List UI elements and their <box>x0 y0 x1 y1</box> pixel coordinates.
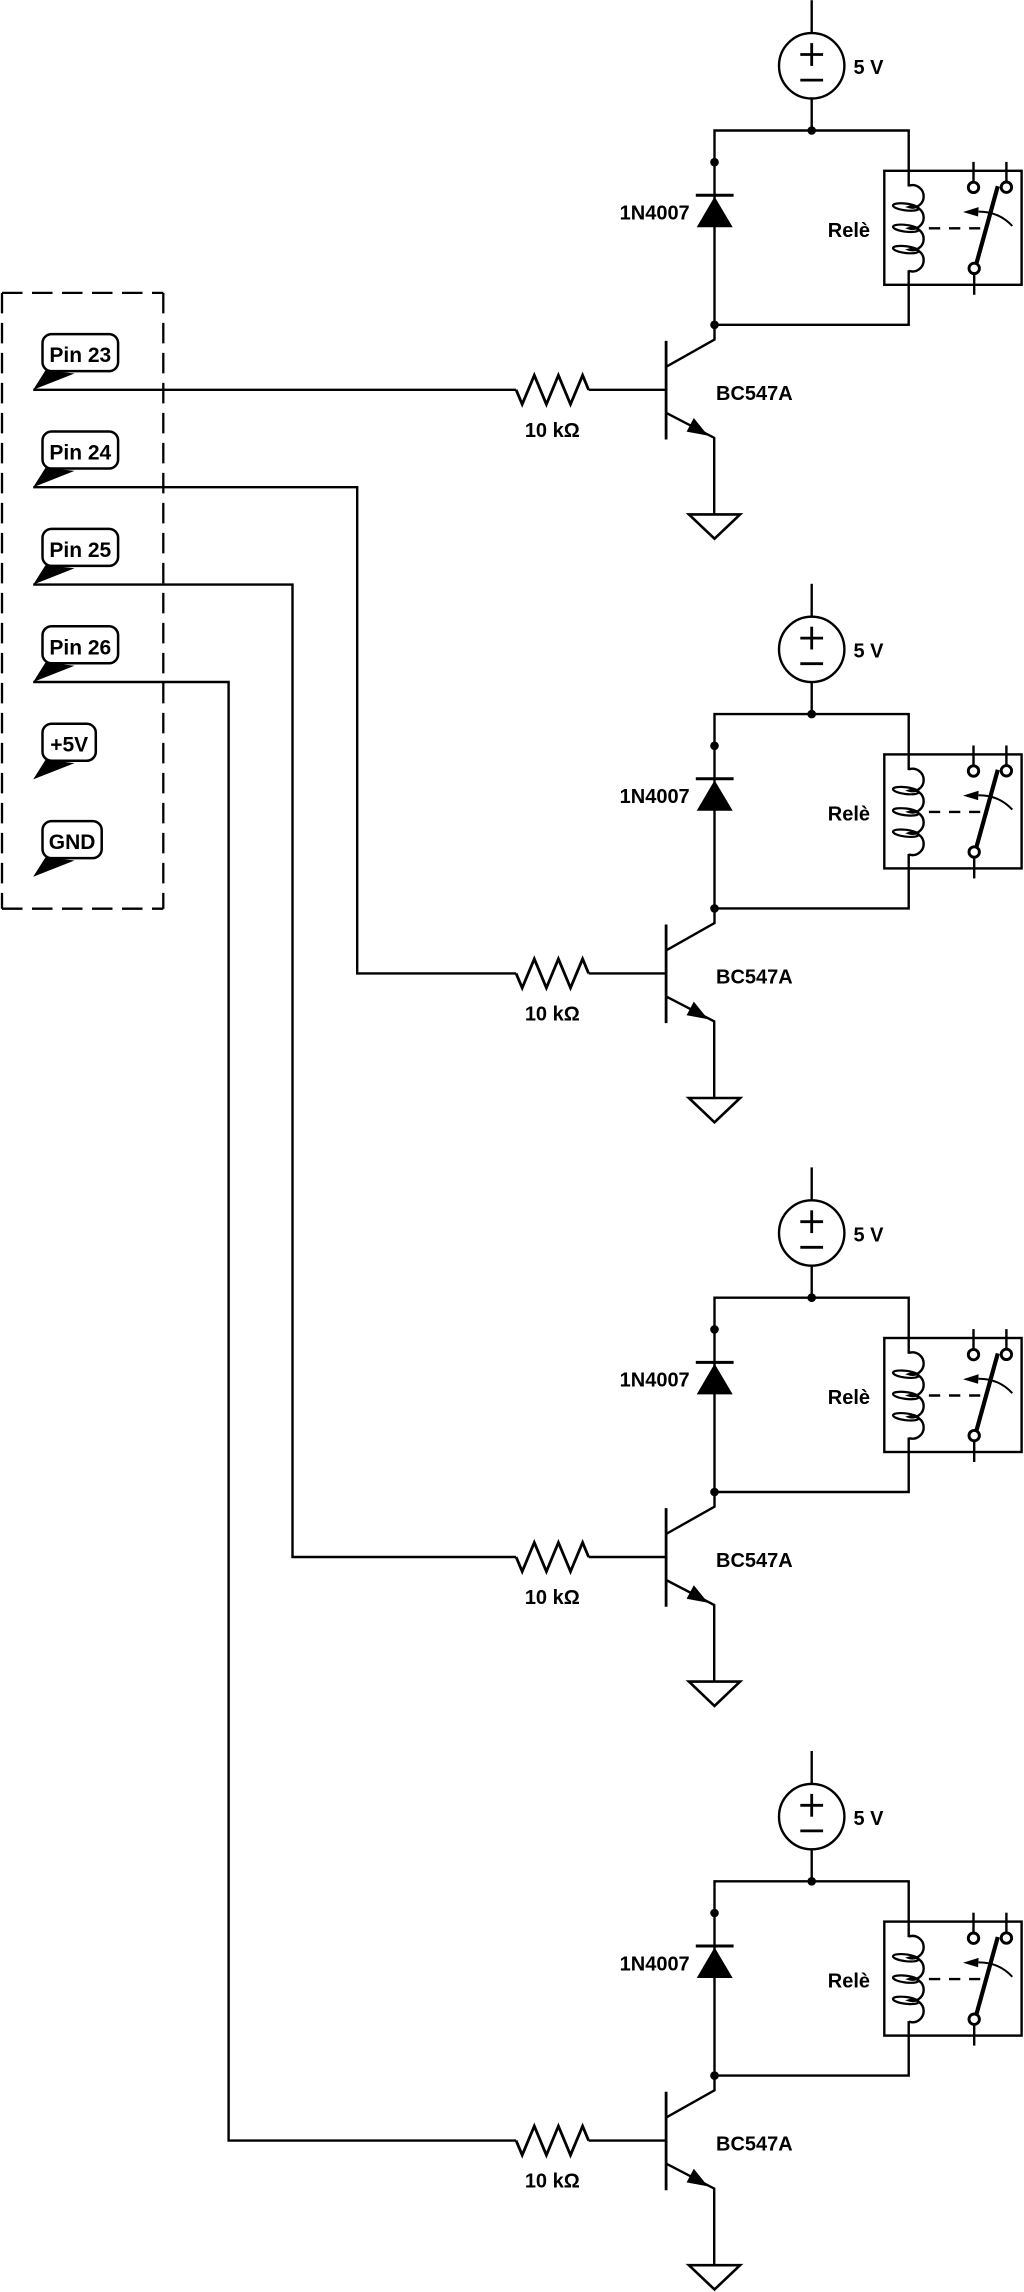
wire top stub of V4 <box>811 1751 813 1784</box>
resistor R4 10 kΩ zigzag <box>516 2126 589 2155</box>
wire R4 to base of Q4 <box>589 2139 667 2141</box>
bottom rail wire block 2 (with coil return) <box>715 854 909 909</box>
node label GND (callout flag) <box>33 821 102 877</box>
svg-text:1N4007: 1N4007 <box>620 203 690 225</box>
ground symbol block 2 <box>689 1098 740 1122</box>
relay K1 contact terminal stubs <box>974 162 1007 295</box>
relay K3 coupling dashed line <box>929 1394 980 1396</box>
relay K4 coil <box>893 1936 924 2022</box>
top rail wire block 4 (with diode branch and coil feed) <box>715 1881 909 2075</box>
bottom rail wire block 3 (with coil return) <box>715 1438 909 1493</box>
relay K4 actuation arrow <box>963 1958 1012 1977</box>
junction node dot at collector of Q1 <box>710 321 719 330</box>
svg-text:BC547A: BC547A <box>716 383 793 405</box>
voltage source V3 5 V <box>779 1200 844 1265</box>
resistor R1 10 kΩ zigzag <box>516 375 589 404</box>
wire Pin 25 to R3 <box>33 585 516 1557</box>
junction node dot at V1 / top rail <box>807 126 816 135</box>
bottom rail wire block 1 (with coil return) <box>715 270 909 325</box>
relay K1 actuation arrow <box>963 207 1012 226</box>
junction node dot at V4 / top rail <box>807 1877 816 1886</box>
wire top stub of V2 <box>811 584 813 617</box>
node label Pin 26 (callout flag) <box>33 626 118 682</box>
svg-text:5 V: 5 V <box>854 1808 885 1830</box>
svg-text:10 kΩ: 10 kΩ <box>525 1004 580 1026</box>
svg-text:5 V: 5 V <box>854 1224 885 1246</box>
junction node dot above diode D4 <box>710 1909 719 1918</box>
svg-text:1N4007: 1N4007 <box>620 1370 690 1392</box>
svg-text:10 kΩ: 10 kΩ <box>525 420 580 442</box>
junction node dot at collector of Q3 <box>710 1488 719 1497</box>
node label Pin 23 (callout flag) <box>33 334 118 390</box>
svg-text:5 V: 5 V <box>854 641 885 663</box>
svg-text:Pin 26: Pin 26 <box>49 636 111 659</box>
dashed box: microcontroller header outline <box>2 293 163 909</box>
svg-text:Relè: Relè <box>828 804 870 826</box>
relay K4 contact terminal stubs <box>974 1913 1007 2046</box>
relay K3 actuation arrow <box>963 1374 1012 1393</box>
relay K2 coil <box>893 769 924 855</box>
relay K4 body box <box>884 1922 1021 2036</box>
svg-text:Pin 23: Pin 23 <box>49 344 111 367</box>
svg-text:Relè: Relè <box>828 1971 870 1993</box>
voltage source V2 5 V <box>779 617 844 682</box>
junction node dot at V2 / top rail <box>807 710 816 719</box>
junction node dot at collector of Q4 <box>710 2071 719 2080</box>
node label Pin 24 (callout flag) <box>33 432 118 488</box>
svg-text:Pin 24: Pin 24 <box>49 442 111 465</box>
svg-text:1N4007: 1N4007 <box>620 1953 690 1975</box>
relay K3 contact circles <box>968 1349 1011 1441</box>
svg-text:10 kΩ: 10 kΩ <box>525 1587 580 1609</box>
relay K4 switch blade <box>977 1937 998 2014</box>
wire V4 minus terminal to top rail <box>811 1849 813 1881</box>
svg-text:+5V: +5V <box>50 734 88 757</box>
transistor Q2 BC547A <box>666 908 714 1098</box>
relay K2 contact terminal stubs <box>974 746 1007 879</box>
svg-text:Relè: Relè <box>828 1387 870 1409</box>
transistor Q3 BC547A <box>666 1492 714 1682</box>
relay K1 body box <box>884 171 1021 285</box>
relay K2 body box <box>884 754 1021 868</box>
voltage source V1 5 V <box>779 33 844 98</box>
voltage source V4 5 V <box>779 1784 844 1849</box>
wire Pin 23 to R1 <box>33 389 516 391</box>
wire Pin 26 to R4 <box>33 682 516 2141</box>
junction node dot at V3 / top rail <box>807 1293 816 1302</box>
wire top stub of V3 <box>811 1167 813 1200</box>
relay K2 switch blade <box>977 770 998 847</box>
junction node dot above diode D1 <box>710 158 719 167</box>
top rail wire block 2 (with diode branch and coil feed) <box>715 714 909 908</box>
wire R2 to base of Q2 <box>589 972 667 974</box>
junction node dot above diode D3 <box>710 1325 719 1334</box>
resistor R2 10 kΩ zigzag <box>516 959 589 988</box>
resistor R3 10 kΩ zigzag <box>516 1543 589 1572</box>
relay K1 switch blade <box>977 186 998 263</box>
ground symbol block 1 <box>689 514 740 538</box>
relay K3 contact terminal stubs <box>974 1329 1007 1462</box>
junction node dot above diode D2 <box>710 742 719 751</box>
transistor Q1 BC547A <box>666 325 714 515</box>
wire Pin 24 to R2 <box>33 487 516 973</box>
wire V1 minus terminal to top rail <box>811 99 813 131</box>
svg-text:BC547A: BC547A <box>716 1550 793 1572</box>
svg-text:1N4007: 1N4007 <box>620 786 690 808</box>
relay K4 contact circles <box>968 1933 1011 2025</box>
relay K3 switch blade <box>977 1353 998 1430</box>
transistor Q4 BC547A <box>666 2076 714 2266</box>
diode D3 1N4007 (cathode bar + triangle) <box>696 1362 734 1394</box>
svg-text:10 kΩ: 10 kΩ <box>525 2171 580 2193</box>
relay K1 coupling dashed line <box>929 227 980 229</box>
bottom rail wire block 4 (with coil return) <box>715 2021 909 2076</box>
diode D2 1N4007 (cathode bar + triangle) <box>696 779 734 811</box>
relay K2 coupling dashed line <box>929 811 980 813</box>
junction node dot at collector of Q2 <box>710 904 719 913</box>
wire R1 to base of Q1 <box>589 389 667 391</box>
ground symbol block 3 <box>689 1682 740 1706</box>
wire V2 minus terminal to top rail <box>811 682 813 714</box>
relay K3 coil <box>893 1352 924 1438</box>
node label +5V (callout flag) <box>33 724 96 780</box>
relay K2 contact circles <box>968 766 1011 858</box>
svg-text:Pin 25: Pin 25 <box>49 539 111 562</box>
svg-text:Relè: Relè <box>828 220 870 242</box>
relay K1 coil <box>893 185 924 271</box>
wire top stub of V1 <box>811 0 813 33</box>
top rail wire block 1 (with diode branch and coil feed) <box>715 131 909 325</box>
ground symbol block 4 <box>689 2265 740 2289</box>
svg-text:GND: GND <box>49 831 96 854</box>
relay K2 actuation arrow <box>963 791 1012 810</box>
svg-text:BC547A: BC547A <box>716 966 793 988</box>
wire V3 minus terminal to top rail <box>811 1266 813 1298</box>
diode D1 1N4007 (cathode bar + triangle) <box>696 195 734 227</box>
relay K3 body box <box>884 1338 1021 1452</box>
svg-text:BC547A: BC547A <box>716 2134 793 2156</box>
relay K4 coupling dashed line <box>929 1978 980 1980</box>
top rail wire block 3 (with diode branch and coil feed) <box>715 1298 909 1492</box>
wire R3 to base of Q3 <box>589 1556 667 1558</box>
diode D4 1N4007 (cathode bar + triangle) <box>696 1946 734 1978</box>
node label Pin 25 (callout flag) <box>33 529 118 585</box>
svg-text:5 V: 5 V <box>854 57 885 79</box>
relay K1 contact circles <box>968 182 1011 274</box>
